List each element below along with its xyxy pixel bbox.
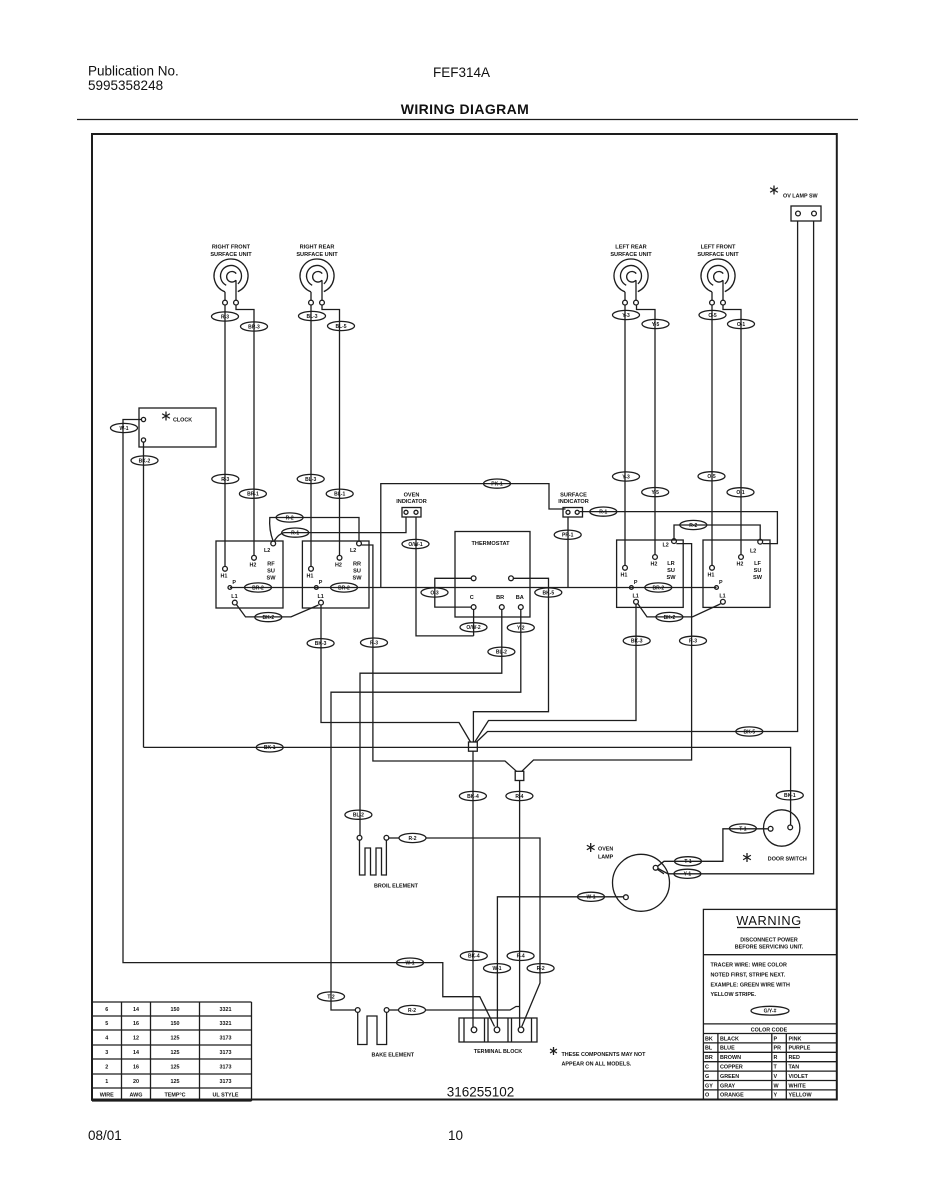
- svg-text:DISCONNECT POWER: DISCONNECT POWER: [740, 938, 798, 944]
- svg-text:H2: H2: [737, 562, 744, 568]
- svg-text:R-3: R-3: [221, 477, 229, 483]
- svg-text:125: 125: [171, 1050, 180, 1056]
- svg-text:C: C: [470, 595, 474, 601]
- svg-text:RED: RED: [789, 1055, 800, 1061]
- svg-text:3: 3: [105, 1050, 108, 1056]
- svg-text:LF: LF: [754, 561, 761, 567]
- svg-text:BR: BR: [705, 1055, 713, 1061]
- svg-text:LR: LR: [667, 561, 674, 567]
- svg-text:BK-2: BK-2: [139, 458, 151, 464]
- svg-text:WARNING: WARNING: [736, 913, 802, 928]
- svg-text:L2: L2: [350, 548, 356, 554]
- svg-text:COPPER: COPPER: [720, 1065, 743, 1071]
- svg-text:R-2: R-2: [689, 523, 697, 529]
- svg-text:L1: L1: [231, 594, 237, 600]
- svg-text:PR-1: PR-1: [562, 533, 574, 539]
- svg-text:SW: SW: [352, 576, 362, 582]
- svg-text:RF: RF: [267, 562, 275, 568]
- svg-text:3173: 3173: [220, 1036, 232, 1042]
- svg-text:SURFACE UNIT: SURFACE UNIT: [697, 252, 739, 258]
- svg-text:BL-1: BL-1: [334, 492, 345, 498]
- svg-text:T-1: T-1: [684, 859, 691, 865]
- svg-text:H2: H2: [651, 562, 658, 568]
- svg-text:O-3: O-3: [430, 590, 439, 596]
- svg-text:PINK: PINK: [789, 1036, 802, 1042]
- svg-text:BA: BA: [516, 595, 524, 601]
- svg-text:BROIL ELEMENT: BROIL ELEMENT: [374, 884, 419, 890]
- svg-text:BLUE: BLUE: [720, 1046, 735, 1052]
- svg-text:Y: Y: [774, 1093, 778, 1099]
- svg-text:YELLOW STRIPE.: YELLOW STRIPE.: [711, 992, 757, 998]
- svg-text:BK-2: BK-2: [664, 615, 676, 621]
- svg-text:O-5: O-5: [708, 313, 717, 319]
- svg-text:COLOR CODE: COLOR CODE: [751, 1028, 788, 1034]
- svg-text:316255102: 316255102: [447, 1085, 515, 1100]
- svg-text:RIGHT REAR: RIGHT REAR: [300, 245, 335, 251]
- svg-text:4: 4: [105, 1036, 108, 1042]
- svg-text:5: 5: [105, 1021, 108, 1027]
- svg-text:3321: 3321: [220, 1021, 232, 1027]
- svg-text:LEFT REAR: LEFT REAR: [615, 245, 646, 251]
- svg-text:LAMP: LAMP: [598, 855, 614, 861]
- svg-text:08/01: 08/01: [88, 1128, 122, 1143]
- svg-text:SW: SW: [753, 575, 763, 581]
- svg-text:125: 125: [171, 1065, 180, 1071]
- svg-text:BK-1: BK-1: [784, 793, 796, 799]
- svg-text:150: 150: [171, 1021, 180, 1027]
- svg-text:BK-2: BK-2: [262, 615, 274, 621]
- svg-text:125: 125: [171, 1036, 180, 1042]
- svg-text:OV LAMP SW: OV LAMP SW: [783, 194, 819, 200]
- svg-text:H1: H1: [221, 573, 228, 579]
- svg-text:G: G: [705, 1074, 709, 1080]
- svg-text:BL-2: BL-2: [496, 650, 507, 656]
- svg-text:GY: GY: [705, 1083, 713, 1089]
- svg-text:PURPLE: PURPLE: [789, 1046, 811, 1052]
- svg-text:Y-2: Y-2: [517, 625, 525, 631]
- svg-text:SU: SU: [667, 568, 675, 574]
- svg-text:RR: RR: [353, 562, 361, 568]
- svg-text:R-1: R-1: [599, 509, 607, 515]
- svg-text:BK-3: BK-3: [631, 639, 643, 645]
- svg-text:L1: L1: [633, 593, 639, 599]
- svg-text:L1: L1: [719, 593, 725, 599]
- svg-text:150: 150: [171, 1007, 180, 1013]
- svg-text:BK-1: BK-1: [264, 745, 276, 751]
- svg-text:BL-5: BL-5: [335, 324, 346, 330]
- svg-text:THESE COMPONENTS MAY NOT: THESE COMPONENTS MAY NOT: [562, 1052, 647, 1058]
- svg-text:O-1: O-1: [736, 490, 745, 496]
- svg-text:PK-1: PK-1: [491, 481, 503, 487]
- svg-text:INDICATOR: INDICATOR: [396, 499, 427, 505]
- svg-text:T-2: T-2: [327, 994, 334, 1000]
- svg-text:W-1: W-1: [119, 426, 128, 432]
- svg-text:DOOR SWITCH: DOOR SWITCH: [768, 856, 807, 862]
- svg-text:BAKE ELEMENT: BAKE ELEMENT: [372, 1053, 415, 1059]
- svg-text:H1: H1: [708, 572, 715, 578]
- svg-text:BR-3: BR-3: [248, 324, 260, 330]
- svg-text:L1: L1: [318, 594, 324, 600]
- svg-text:O/W-2: O/W-2: [466, 625, 481, 631]
- svg-text:L2: L2: [264, 548, 270, 554]
- svg-text:H2: H2: [335, 562, 342, 568]
- svg-text:SW: SW: [266, 576, 276, 582]
- svg-text:VIOLET: VIOLET: [789, 1074, 809, 1080]
- svg-text:3173: 3173: [220, 1079, 232, 1085]
- svg-text:NOTED FIRST, STRIPE NEXT.: NOTED FIRST, STRIPE NEXT.: [711, 972, 786, 978]
- svg-text:BEFORE SERVICING UNIT.: BEFORE SERVICING UNIT.: [735, 945, 804, 951]
- svg-text:LEFT FRONT: LEFT FRONT: [701, 245, 736, 251]
- svg-text:P: P: [719, 580, 723, 586]
- svg-text:G/Y-#: G/Y-#: [764, 1009, 777, 1015]
- svg-text:GREEN: GREEN: [720, 1074, 739, 1080]
- svg-text:Y-5: Y-5: [652, 322, 660, 328]
- svg-text:ORANGE: ORANGE: [720, 1093, 744, 1099]
- svg-text:AWG: AWG: [130, 1093, 143, 1099]
- svg-text:SURFACE: SURFACE: [560, 493, 587, 499]
- svg-text:3321: 3321: [220, 1007, 232, 1013]
- svg-text:20: 20: [133, 1079, 139, 1085]
- svg-text:O-1: O-1: [737, 322, 746, 328]
- svg-text:BR-2: BR-2: [338, 585, 350, 591]
- svg-text:OVEN: OVEN: [598, 847, 613, 853]
- svg-text:TERMINAL BLOCK: TERMINAL BLOCK: [474, 1049, 523, 1055]
- svg-text:TEMP°C: TEMP°C: [164, 1093, 185, 1099]
- svg-text:BL-2: BL-2: [353, 813, 364, 819]
- svg-text:W-1: W-1: [405, 960, 414, 966]
- svg-text:P: P: [319, 580, 323, 586]
- svg-text:R-3: R-3: [689, 639, 697, 645]
- svg-text:APPEAR ON ALL MODELS.: APPEAR ON ALL MODELS.: [562, 1062, 632, 1068]
- svg-text:CLOCK: CLOCK: [173, 418, 192, 424]
- svg-text:BR-2: BR-2: [252, 585, 264, 591]
- svg-text:R-2: R-2: [408, 836, 416, 842]
- svg-text:TRACER WIRE: WIRE COLOR: TRACER WIRE: WIRE COLOR: [711, 963, 787, 969]
- svg-text:OVEN: OVEN: [404, 493, 420, 499]
- svg-text:BK-3: BK-3: [315, 641, 327, 647]
- svg-text:SU: SU: [754, 568, 762, 574]
- svg-text:THERMOSTAT: THERMOSTAT: [471, 541, 510, 547]
- svg-text:SURFACE UNIT: SURFACE UNIT: [210, 252, 252, 258]
- svg-text:PR: PR: [774, 1046, 782, 1052]
- svg-text:BK-5: BK-5: [743, 729, 755, 735]
- svg-text:R: R: [774, 1055, 778, 1061]
- svg-text:Y-1: Y-1: [684, 872, 692, 878]
- svg-text:O/W-1: O/W-1: [408, 542, 423, 548]
- svg-text:TAN: TAN: [789, 1065, 800, 1071]
- svg-text:R-1: R-1: [291, 530, 299, 536]
- svg-text:UL STYLE: UL STYLE: [213, 1093, 239, 1099]
- svg-text:14: 14: [133, 1007, 139, 1013]
- svg-text:Y-3: Y-3: [622, 474, 630, 480]
- svg-text:2: 2: [105, 1065, 108, 1071]
- svg-text:T-1: T-1: [739, 826, 746, 832]
- svg-text:BL: BL: [705, 1046, 713, 1052]
- svg-text:BK-4: BK-4: [467, 794, 479, 800]
- svg-text:R-4: R-4: [515, 794, 523, 800]
- svg-text:SU: SU: [353, 569, 361, 575]
- svg-text:R-4: R-4: [517, 954, 525, 960]
- svg-text:Y-5: Y-5: [651, 490, 659, 496]
- svg-text:GRAY: GRAY: [720, 1083, 735, 1089]
- svg-text:R-2: R-2: [286, 515, 294, 521]
- svg-text:W-1: W-1: [492, 966, 501, 972]
- svg-text:6: 6: [105, 1007, 108, 1013]
- svg-text:O: O: [705, 1093, 709, 1099]
- svg-text:BL-3: BL-3: [305, 477, 316, 483]
- svg-text:BR-1: BR-1: [247, 492, 259, 498]
- svg-text:BR: BR: [496, 595, 504, 601]
- svg-text:P: P: [634, 580, 638, 586]
- svg-text:C: C: [705, 1065, 709, 1071]
- svg-text:14: 14: [133, 1050, 139, 1056]
- svg-text:O-5: O-5: [707, 474, 716, 480]
- svg-text:L2: L2: [750, 549, 756, 555]
- svg-text:YELLOW: YELLOW: [789, 1093, 813, 1099]
- svg-text:SURFACE UNIT: SURFACE UNIT: [296, 252, 338, 258]
- svg-text:BR-2: BR-2: [652, 585, 664, 591]
- svg-text:125: 125: [171, 1079, 180, 1085]
- svg-text:5995358248: 5995358248: [88, 78, 163, 93]
- svg-text:3173: 3173: [220, 1065, 232, 1071]
- svg-text:H2: H2: [250, 562, 257, 568]
- svg-text:BK: BK: [705, 1036, 713, 1042]
- svg-text:L2: L2: [663, 543, 669, 549]
- svg-text:BL-3: BL-3: [306, 314, 317, 320]
- svg-text:16: 16: [133, 1065, 139, 1071]
- svg-text:Y-3: Y-3: [622, 313, 630, 319]
- svg-text:BROWN: BROWN: [720, 1055, 741, 1061]
- svg-text:R-3: R-3: [370, 640, 378, 646]
- svg-text:WIRE: WIRE: [100, 1093, 114, 1099]
- svg-text:RIGHT FRONT: RIGHT FRONT: [212, 245, 251, 251]
- svg-text:INDICATOR: INDICATOR: [558, 499, 589, 505]
- svg-text:FEF314A: FEF314A: [433, 65, 490, 80]
- svg-text:EXAMPLE: GREEN WIRE WITH: EXAMPLE: GREEN WIRE WITH: [711, 982, 790, 988]
- svg-text:P: P: [774, 1036, 778, 1042]
- svg-text:SW: SW: [666, 575, 676, 581]
- svg-text:W-1: W-1: [586, 895, 595, 901]
- svg-text:12: 12: [133, 1036, 139, 1042]
- svg-text:SURFACE UNIT: SURFACE UNIT: [610, 252, 652, 258]
- svg-text:1: 1: [105, 1079, 108, 1085]
- svg-text:WIRING DIAGRAM: WIRING DIAGRAM: [401, 101, 529, 117]
- svg-text:P: P: [232, 580, 236, 586]
- svg-text:H1: H1: [307, 573, 314, 579]
- svg-text:R-3: R-3: [221, 314, 229, 320]
- svg-text:BLACK: BLACK: [720, 1036, 739, 1042]
- svg-text:16: 16: [133, 1021, 139, 1027]
- svg-text:BK-5: BK-5: [542, 590, 554, 596]
- svg-text:Publication No.: Publication No.: [88, 64, 179, 79]
- svg-text:SU: SU: [267, 569, 275, 575]
- svg-text:R-2: R-2: [537, 966, 545, 972]
- svg-text:3173: 3173: [220, 1050, 232, 1056]
- svg-text:BK-4: BK-4: [468, 954, 480, 960]
- svg-text:R-2: R-2: [408, 1008, 416, 1014]
- svg-text:V: V: [774, 1074, 778, 1080]
- svg-text:H1: H1: [621, 572, 628, 578]
- svg-text:WHITE: WHITE: [789, 1083, 807, 1089]
- svg-text:10: 10: [448, 1128, 463, 1143]
